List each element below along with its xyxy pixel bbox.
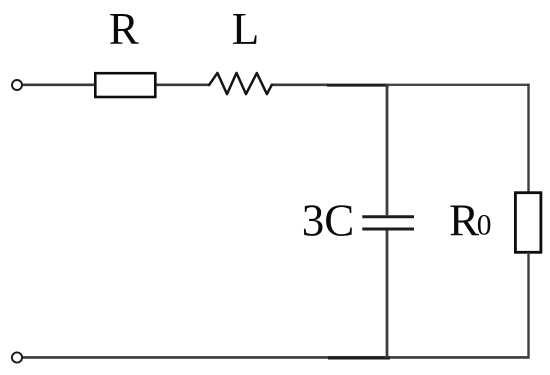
svg-text:3C: 3C <box>302 196 355 246</box>
svg-text:R: R <box>449 196 479 246</box>
svg-text:R: R <box>109 4 139 54</box>
svg-text:L: L <box>232 4 259 54</box>
svg-text:0: 0 <box>477 210 492 242</box>
